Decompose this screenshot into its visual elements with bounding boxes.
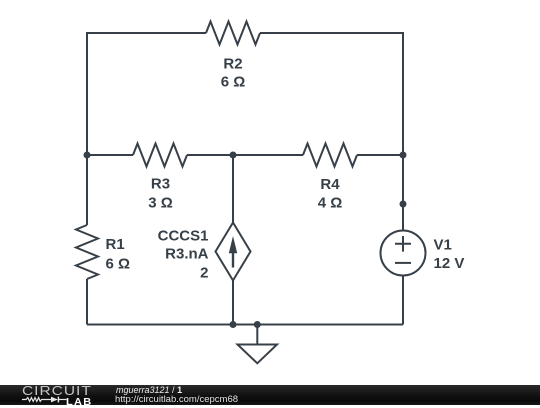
wire: CCCS1 top lead: [232, 155, 234, 223]
CircuitLab logo text LAB: [66, 397, 93, 408]
label R1: [106, 236, 125, 253]
wire: left rail, mid node down to R1: [86, 155, 88, 225]
node: center mid junction: [230, 152, 237, 159]
resistor R3: [133, 144, 187, 167]
value label CCCS1: R3.nA: [165, 245, 209, 262]
resistor R1: [76, 225, 98, 279]
wire: left rail, R1 down to bottom wire: [86, 279, 88, 325]
credit line 2: [115, 394, 238, 405]
value label R4: 4 ohm: [318, 194, 343, 211]
wire: CCCS1 bottom lead: [232, 281, 234, 325]
ground: [238, 325, 278, 364]
wire: right rail, mid node to V1 terminal: [402, 155, 404, 204]
wire: bottom wire, left rail to CCCS node: [87, 324, 233, 326]
voltage source V1: [381, 231, 426, 276]
wire: mid wire, R3 to center node: [187, 154, 233, 156]
wire: bottom wire, CCCS node to ground node: [233, 324, 257, 326]
wire: mid wire, R4 to right rail: [357, 154, 403, 156]
wire: mid wire, center node to R4: [233, 154, 303, 156]
label R2: [223, 56, 242, 73]
label CCCS1: [158, 228, 209, 245]
wire: mid wire, left node to R3: [87, 154, 133, 156]
resistor R2: [206, 22, 260, 45]
value label R2: 6 ohm: [221, 74, 246, 91]
credit line 1: [116, 385, 182, 395]
label R3: [151, 176, 170, 193]
value label R3: 3 ohm: [148, 195, 173, 212]
value label V1: 12 V: [434, 255, 465, 272]
wire: left rail top + top wire left segment: [87, 33, 206, 155]
wire: V1 top lead: [402, 204, 404, 231]
wire: V1 bottom lead to bottom wire: [402, 275, 404, 325]
CircuitLab logo text CIRCUIT: [22, 383, 92, 398]
node: left rail / mid wire junction: [84, 152, 91, 159]
value label R1: 6 ohm: [106, 256, 131, 273]
node: ground junction: [254, 321, 261, 328]
label V1: [434, 237, 452, 254]
node: right rail / mid wire junction: [400, 152, 407, 159]
node: V1 positive terminal: [400, 201, 407, 208]
label R4: [320, 176, 340, 193]
wire: bottom wire, ground node to right rail: [257, 324, 403, 326]
footer bar: [0, 385, 540, 405]
value label CCCS1: gain 2: [200, 264, 208, 281]
resistor R4: [303, 144, 357, 167]
node: CCCS bottom junction: [230, 321, 237, 328]
controlled current source CCCS1 (diamond with arrow): [216, 223, 251, 281]
wire: top wire right segment + right rail down to mid node: [260, 33, 403, 155]
